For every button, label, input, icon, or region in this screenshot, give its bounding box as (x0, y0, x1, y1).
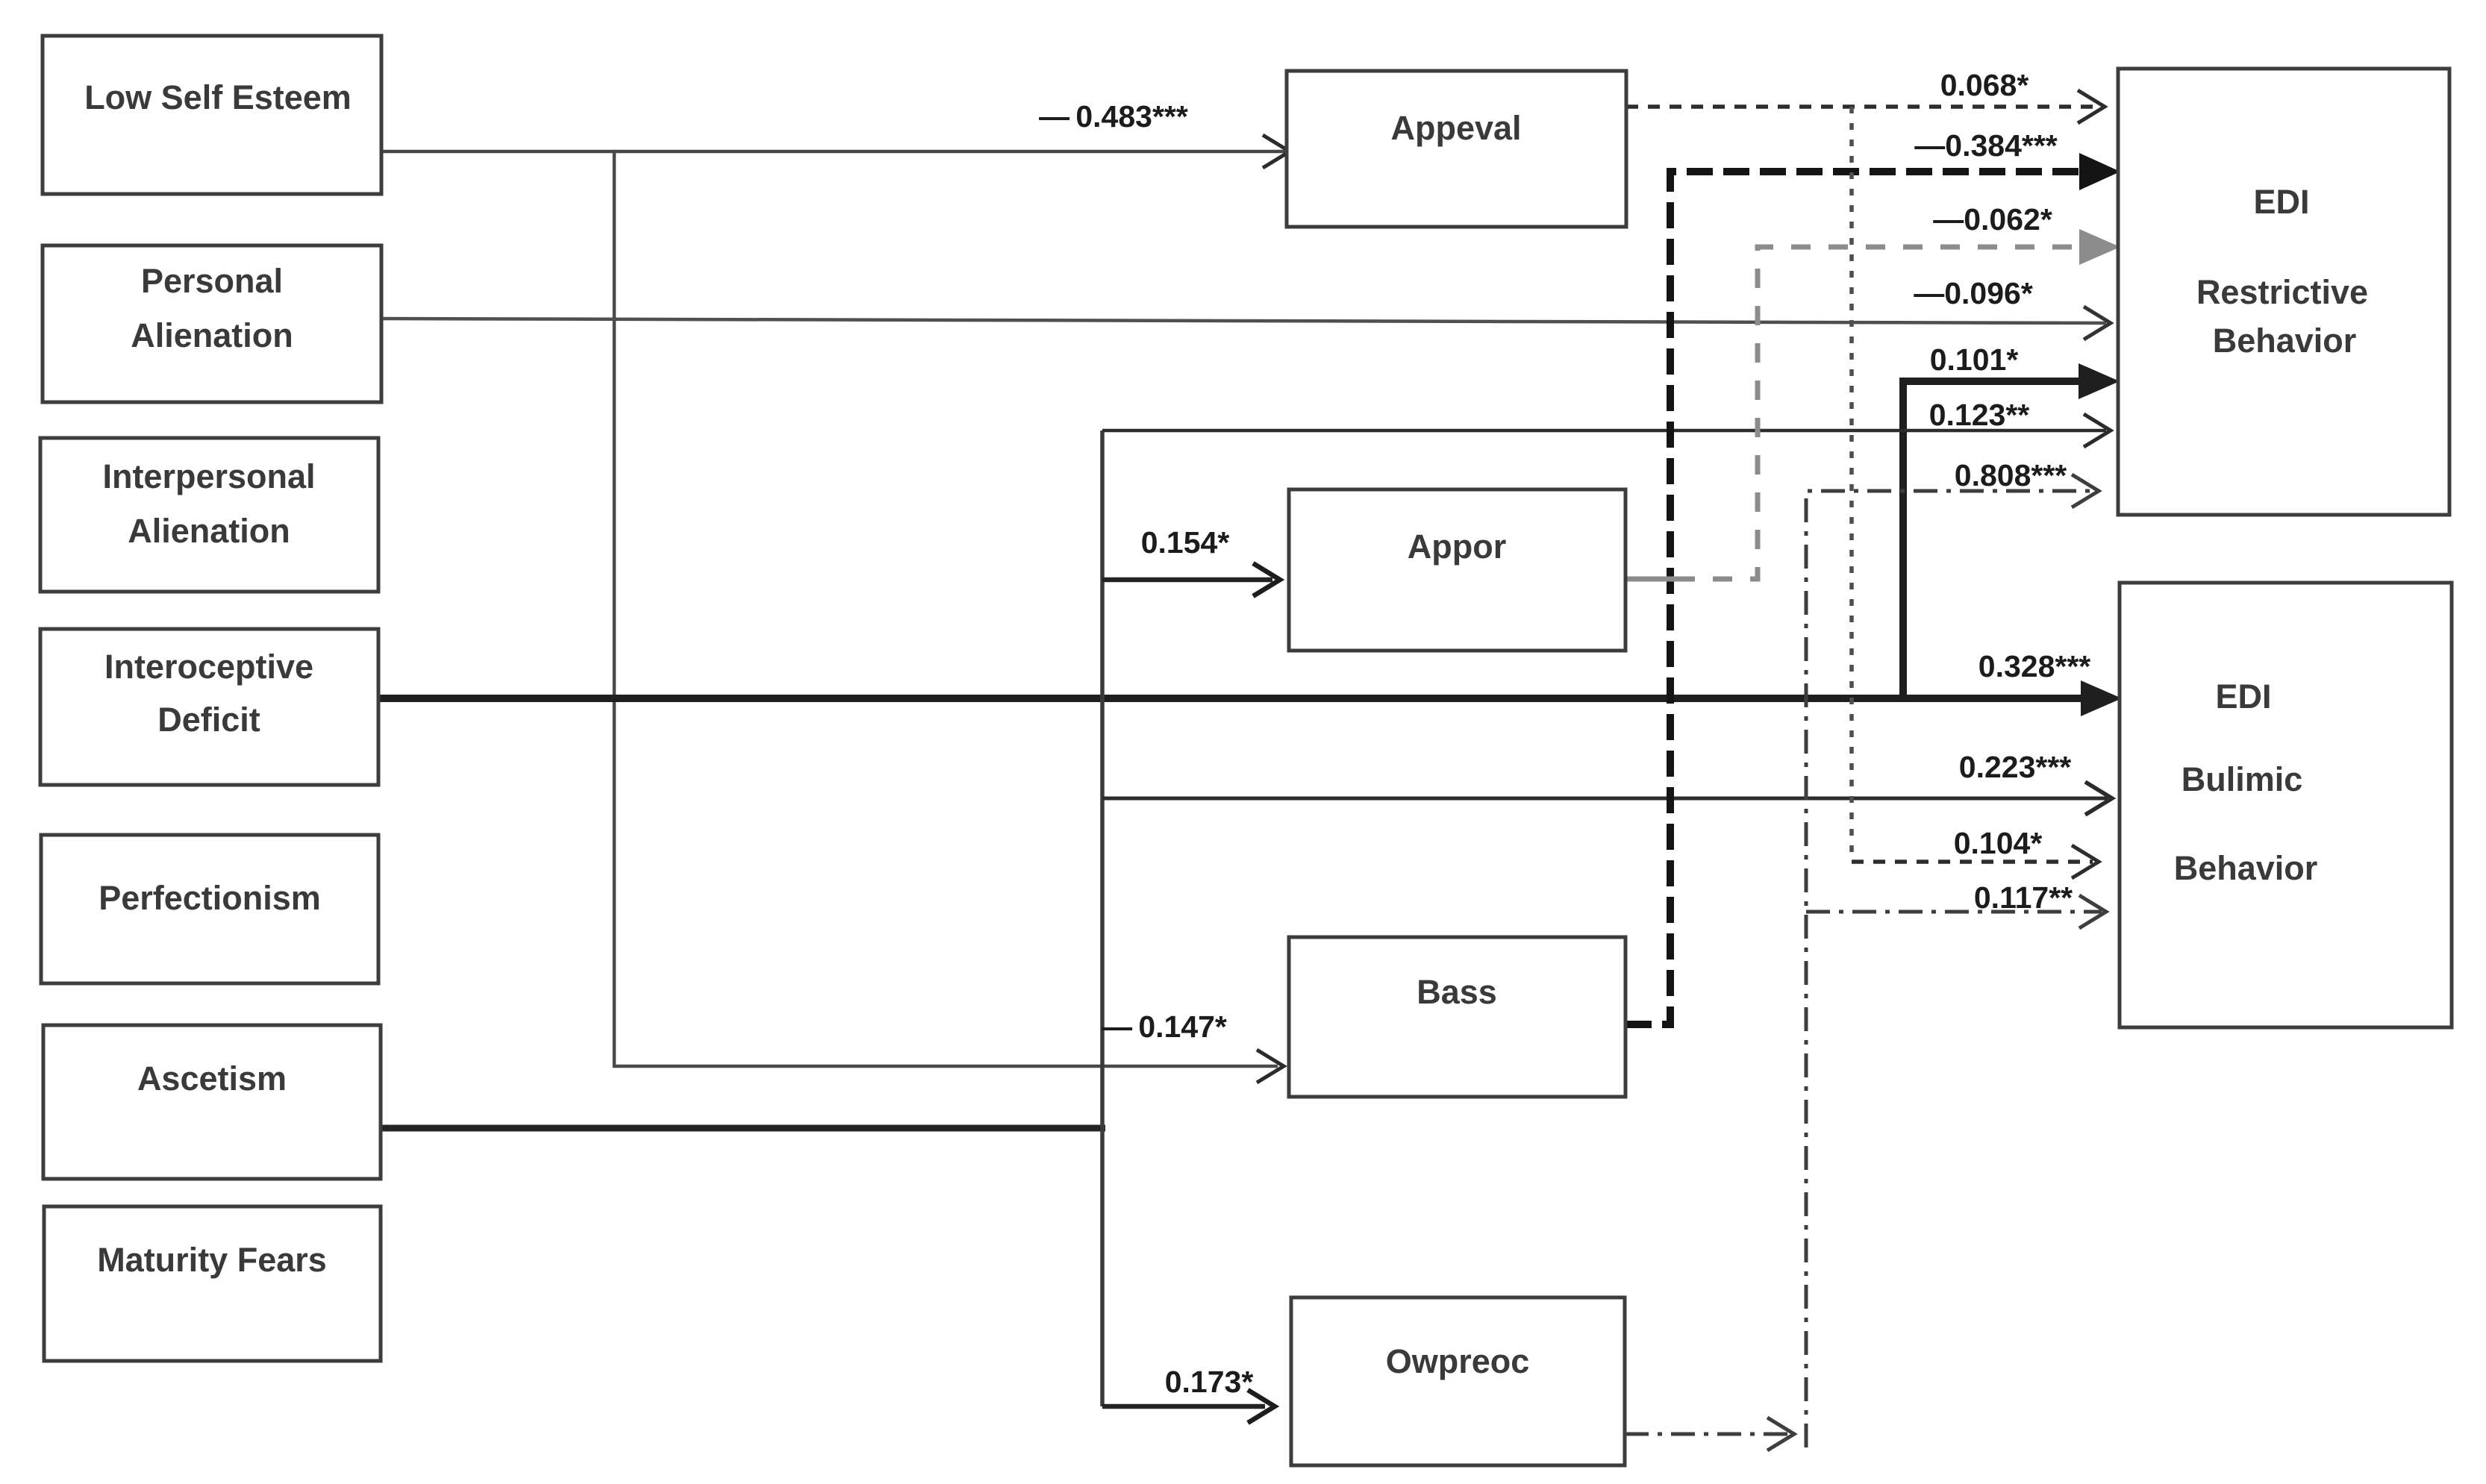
svg-text:Restrictive: Restrictive (2196, 273, 2368, 311)
svg-text:EDI: EDI (2253, 183, 2309, 221)
svg-text:—0.096*: —0.096* (1914, 276, 2033, 310)
svg-text:0.104*: 0.104* (1954, 826, 2043, 860)
svg-text:Personal: Personal (141, 262, 283, 300)
svg-text:Behavior: Behavior (2174, 849, 2318, 887)
svg-text:Interpersonal: Interpersonal (102, 457, 315, 495)
svg-text:Ascetism: Ascetism (137, 1059, 287, 1098)
svg-text:0.328***: 0.328*** (1979, 649, 2091, 683)
svg-text:Alienation: Alienation (128, 512, 290, 550)
svg-text:Bulimic: Bulimic (2182, 760, 2303, 798)
svg-text:0.117**: 0.117** (1974, 880, 2073, 915)
svg-text:0.068*: 0.068* (1940, 68, 2029, 102)
svg-text:Interoceptive: Interoceptive (104, 648, 313, 686)
svg-text:0.223***: 0.223*** (1959, 750, 2072, 784)
svg-text:—0.062*: —0.062* (1933, 202, 2052, 237)
svg-text:0.173*: 0.173* (1165, 1365, 1254, 1399)
svg-text:—0.384***: —0.384*** (1914, 128, 2058, 163)
svg-text:Owpreoc: Owpreoc (1386, 1342, 1530, 1380)
svg-text:Maturity Fears: Maturity Fears (97, 1241, 327, 1279)
svg-text:Appor: Appor (1408, 527, 1506, 566)
svg-text:Bass: Bass (1417, 973, 1497, 1011)
svg-text:0.101*: 0.101* (1930, 342, 2019, 377)
svg-text:0.808***: 0.808*** (1955, 458, 2067, 492)
svg-text:Perfectionism: Perfectionism (99, 879, 321, 917)
svg-text:— 0.147*: — 0.147* (1102, 1009, 1227, 1044)
svg-text:0.154*: 0.154* (1141, 525, 1230, 560)
svg-text:— 0.483***: — 0.483*** (1039, 99, 1188, 134)
svg-text:Behavior: Behavior (2213, 322, 2357, 360)
svg-text:Low Self Esteem: Low Self Esteem (84, 78, 352, 116)
svg-text:Alienation: Alienation (131, 316, 293, 354)
svg-text:Appeval: Appeval (1390, 109, 1521, 147)
svg-text:0.123**: 0.123** (1929, 398, 2030, 432)
svg-text:EDI: EDI (2215, 677, 2271, 716)
svg-text:Deficit: Deficit (157, 701, 260, 739)
